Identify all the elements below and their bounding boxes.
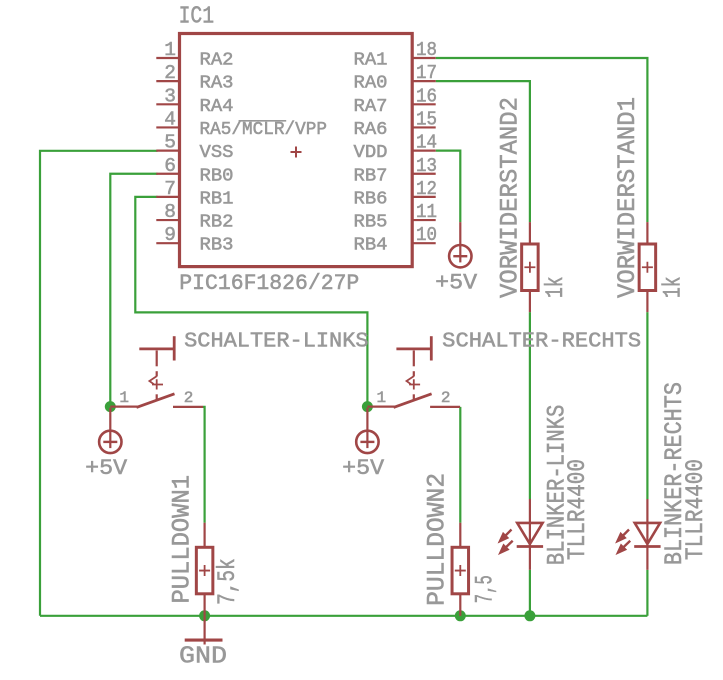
junction at SCHALTER-LINKS pin 1: [105, 401, 116, 412]
junction at PULLDOWN1 / GND: [199, 610, 210, 621]
svg-text:15: 15: [416, 108, 437, 130]
svg-text:VSS: VSS: [200, 143, 234, 163]
svg-text:11: 11: [416, 201, 437, 223]
svg-text:PIC16F1826/27P: PIC16F1826/27P: [179, 271, 359, 296]
svg-text:7,5k: 7,5k: [213, 558, 242, 605]
resistor R VORWIDERSTAND1: [639, 222, 656, 312]
svg-text:5: 5: [164, 132, 176, 154]
wire net GND: BLINKER-RECHTS cathode down: [646, 570, 648, 616]
switch S SCHALTER-RECHTS: [367, 336, 460, 407]
svg-text:8: 8: [164, 201, 176, 223]
wire net: IC1 pin 17 RA0 to VORWIDERSTAND2: [436, 81, 530, 222]
svg-text:18: 18: [416, 39, 437, 61]
wire net: SCHALTER-RECHTS pin 2 to PULLDOWN2: [459, 407, 461, 523]
svg-text:RB7: RB7: [354, 166, 388, 186]
svg-text:RA5/MCLR/VPP: RA5/MCLR/VPP: [200, 120, 328, 140]
svg-text:14: 14: [416, 132, 437, 154]
wire net N$2: IC1 pin 7 RB1 to SCHALTER-RECHTS pin 1: [135, 197, 367, 407]
svg-text:RA7: RA7: [354, 97, 388, 117]
wire net: SCHALTER-LINKS pin 2 to PULLDOWN1: [203, 407, 205, 523]
svg-text:6: 6: [164, 155, 176, 177]
junction at PULLDOWN2 bottom: [455, 610, 466, 621]
svg-text:PULLDOWN2: PULLDOWN2: [422, 473, 451, 606]
svg-text:RB2: RB2: [200, 213, 234, 233]
svg-text:RB1: RB1: [200, 189, 234, 209]
svg-text:1: 1: [376, 389, 386, 407]
wire net: VORWIDERSTAND1 to BLINKER-RECHTS anode: [646, 312, 648, 499]
svg-text:PULLDOWN1: PULLDOWN1: [167, 475, 196, 604]
svg-text:RB0: RB0: [200, 166, 234, 186]
wire net GND: IC1 pin 5 VSS left and down: [40, 151, 158, 616]
svg-text:1k: 1k: [658, 276, 687, 298]
pin names right: [354, 51, 388, 256]
svg-text:2: 2: [441, 389, 451, 407]
IC IC1 PIC16F1826/27P body, pin stubs 1-9 left and 18-10 right, origin cross: [156, 34, 435, 267]
svg-text:17: 17: [416, 62, 437, 84]
svg-text:RA1: RA1: [354, 51, 388, 71]
svg-text:7: 7: [164, 178, 176, 200]
junction at BLINKER-LINKS cathode: [524, 610, 535, 621]
wire net: VORWIDERSTAND2 to BLINKER-LINKS anode: [529, 312, 531, 499]
svg-text:+5V: +5V: [435, 270, 478, 296]
svg-text:RB5: RB5: [354, 213, 388, 233]
svg-text:9: 9: [164, 224, 176, 246]
svg-text:7,5: 7,5: [470, 575, 499, 603]
svg-text:TLLR4400: TLLR4400: [563, 459, 592, 560]
pin names left: [200, 51, 328, 256]
junction at SCHALTER-RECHTS pin 1: [362, 401, 373, 412]
svg-text:3: 3: [164, 85, 176, 107]
pin numbers right 18-10: [416, 39, 437, 246]
svg-text:16: 16: [416, 85, 437, 107]
svg-text:RA6: RA6: [354, 120, 388, 140]
wire net GND: BLINKER-LINKS cathode down: [529, 570, 531, 616]
svg-text:SCHALTER-RECHTS: SCHALTER-RECHTS: [442, 331, 641, 354]
svg-text:2: 2: [164, 62, 176, 84]
svg-text:RB4: RB4: [354, 236, 388, 256]
ground GND: [185, 616, 223, 645]
supply +5V: [99, 408, 121, 453]
svg-text:13: 13: [416, 155, 437, 177]
svg-text:TLLR4400: TLLR4400: [681, 459, 710, 560]
svg-text:RB6: RB6: [354, 189, 388, 209]
LED BLINKER-RECHTS: [634, 499, 660, 570]
svg-text:RA3: RA3: [200, 74, 234, 94]
wire net: IC1 pin 18 RA1 to VORWIDERSTAND1: [436, 58, 648, 222]
svg-text:RB3: RB3: [200, 236, 234, 256]
svg-text:+5V: +5V: [342, 455, 385, 481]
resistor R PULLDOWN1: [196, 523, 213, 616]
supply +5V: [356, 408, 378, 453]
svg-text:10: 10: [416, 224, 437, 246]
pin numbers left 1-9: [164, 39, 176, 246]
svg-text:RA0: RA0: [354, 74, 388, 94]
resistor R PULLDOWN2: [452, 523, 469, 616]
resistor R VORWIDERSTAND2: [522, 222, 539, 312]
svg-text:1: 1: [119, 389, 129, 407]
wire net N$1: IC1 pin 6 RB0 to SCHALTER-LINKS pin 1: [110, 174, 157, 407]
svg-text:1k: 1k: [541, 276, 570, 298]
svg-text:GND: GND: [179, 644, 227, 671]
switch S SCHALTER-LINKS: [110, 336, 203, 407]
wire net +5V: IC1 pin 14 VDD to +5V supply: [436, 151, 461, 223]
supply +5V: [449, 222, 471, 267]
svg-text:1: 1: [164, 39, 176, 61]
wire net GND: bottom horizontal bus: [40, 615, 647, 617]
MCLR overline: [239, 120, 287, 122]
svg-text:+5V: +5V: [85, 455, 128, 481]
svg-text:SCHALTER-LINKS: SCHALTER-LINKS: [184, 331, 368, 354]
svg-text:VDD: VDD: [354, 143, 388, 163]
svg-text:4: 4: [164, 108, 176, 130]
svg-text:VORWIDERSTAND1: VORWIDERSTAND1: [613, 97, 642, 298]
svg-text:RA2: RA2: [200, 51, 234, 71]
LED BLINKER-LINKS: [517, 499, 543, 570]
svg-text:VORWIDERSTAND2: VORWIDERSTAND2: [495, 97, 524, 298]
svg-text:RA4: RA4: [200, 97, 234, 117]
svg-text:2: 2: [184, 389, 194, 407]
svg-text:IC1: IC1: [179, 4, 215, 31]
svg-text:12: 12: [416, 178, 437, 200]
